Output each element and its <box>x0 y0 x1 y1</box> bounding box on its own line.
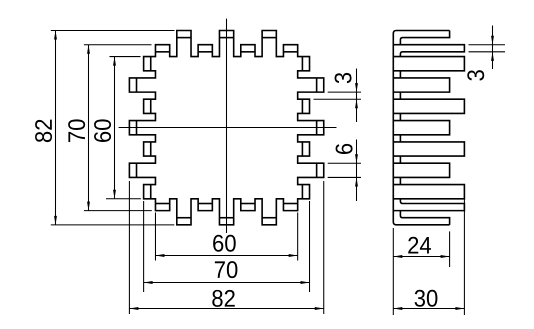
label 30 <box>415 290 425 307</box>
tooth inner line right M <box>301 57 303 71</box>
label 82 (bottom) <box>212 290 222 307</box>
dim3 leader <box>356 69 358 123</box>
ext 60 br <box>297 213 299 261</box>
tooth inner line right M <box>301 142 303 156</box>
label 70 (bottom) <box>215 261 225 278</box>
tooth inner line bottom M <box>241 203 255 205</box>
side fin B (long) <box>393 45 464 57</box>
arrow 30 left <box>393 307 402 310</box>
tooth inner line top T <box>177 37 191 39</box>
side gap root H-I <box>399 177 401 184</box>
tooth inner line left T <box>136 121 138 135</box>
tooth inner line left M <box>150 99 152 113</box>
ext dim6 b <box>328 176 361 178</box>
arrow sdim3 up <box>491 52 494 61</box>
arrow 60 bottom <box>113 190 116 199</box>
side gap root D-E <box>399 92 401 99</box>
label 6 (front) <box>336 144 353 154</box>
arrow dim6 down <box>355 154 358 163</box>
side profile base/left face <box>393 31 449 225</box>
arrow 30 right <box>455 307 464 310</box>
dim line 60 (left) <box>114 57 116 199</box>
arrow 70 left <box>144 281 153 284</box>
ext dim3 a <box>328 91 361 93</box>
arrow 82 bottom <box>54 216 57 225</box>
tooth inner line bottom M <box>198 203 212 205</box>
tooth inner line top M <box>155 51 169 53</box>
arrow 60 left <box>155 254 164 257</box>
label 60 (left) <box>94 132 111 142</box>
tooth inner line bottom T <box>177 217 191 219</box>
arrow 70 top <box>87 45 90 54</box>
arrow 60 right <box>289 254 298 257</box>
label 24 <box>408 237 418 254</box>
dim line 70 (left) <box>88 45 90 211</box>
tooth inner line left T <box>136 78 138 92</box>
ext 70 top <box>84 44 152 46</box>
dim line 30 <box>393 308 464 310</box>
ext 82 bl <box>128 181 130 314</box>
tooth inner line left T <box>136 163 138 177</box>
side fin B' (bottom, long) <box>393 199 464 211</box>
tooth inner line left M <box>150 142 152 156</box>
tooth inner line top M <box>283 51 297 53</box>
dim line 82 (bottom) <box>129 308 323 310</box>
centerline vertical <box>226 19 228 233</box>
ext sdim3 b <box>469 51 506 53</box>
tooth inner line right T <box>316 121 318 135</box>
arrow 60 top <box>113 57 116 66</box>
arrow 70 bottom <box>87 202 90 211</box>
sdim3 leader <box>492 26 494 70</box>
centerline horizontal <box>119 127 337 129</box>
dim line 70 (bottom) <box>144 282 310 284</box>
side fin A (top, short) <box>400 31 449 45</box>
arrow dim3 down <box>355 83 358 92</box>
side gap root C-D <box>399 71 401 78</box>
side gap root F-G <box>399 135 401 142</box>
arrow 70 right <box>301 281 310 284</box>
arrow 82 right <box>315 307 324 310</box>
ext 30 right <box>463 199 465 315</box>
side fin A' (bottom, short) <box>400 211 449 225</box>
dim line 82 (left) <box>55 31 57 225</box>
arrow 82 left <box>129 307 138 310</box>
ext 70 bl <box>143 201 145 292</box>
label 3 (side) <box>467 70 484 80</box>
arrow 24 left <box>393 255 402 258</box>
ext dim3 b <box>314 98 362 100</box>
side fin I (long) <box>393 185 464 199</box>
label 60 (bottom) <box>213 235 223 252</box>
arrow 82 top <box>54 31 57 40</box>
side fin E (long) <box>393 99 464 113</box>
arrow sdim3 down <box>491 36 494 45</box>
ext 60 top <box>110 56 141 58</box>
dim6 leader <box>356 140 358 202</box>
ext 70 br <box>309 201 311 292</box>
side fin H (short) <box>393 163 449 177</box>
tooth inner line right T <box>316 163 318 177</box>
side gap root E-F <box>399 113 401 120</box>
side fin D (short) <box>393 78 449 92</box>
ext 82 br <box>323 181 325 314</box>
tooth inner line right T <box>316 78 318 92</box>
tooth inner line top M <box>241 51 255 53</box>
side gap root G-H <box>399 156 401 163</box>
label 3 (front) <box>335 73 352 83</box>
side fin C (long) <box>393 57 464 71</box>
ext dim6 a <box>328 162 361 164</box>
ext 24 right <box>449 231 451 267</box>
side fin G (long) <box>393 142 464 156</box>
arrow dim3 up <box>355 99 358 108</box>
label 82 (left) <box>35 132 52 142</box>
tooth inner line right M <box>301 185 303 199</box>
tooth inner line right M <box>301 99 303 113</box>
tooth inner line bottom T <box>219 217 233 219</box>
ext side left <box>392 228 394 315</box>
ext 82 bottom <box>51 224 175 226</box>
ext 82 top <box>51 30 175 32</box>
tooth inner line top T <box>219 37 233 39</box>
tooth inner line bottom T <box>262 217 276 219</box>
tooth inner line top M <box>198 51 212 53</box>
side fin F (short) <box>393 121 449 135</box>
tooth inner line left M <box>150 185 152 199</box>
dim line 60 (bottom) <box>155 255 297 257</box>
dim line 24 <box>393 256 449 258</box>
ext 60 bl <box>154 213 156 261</box>
tooth inner line bottom M <box>283 203 297 205</box>
tooth inner line left M <box>150 57 152 71</box>
ext 60 bottom <box>106 198 141 200</box>
ext 70 bottom <box>84 210 152 212</box>
tooth inner line top T <box>262 37 276 39</box>
ext sdim3 a <box>469 44 506 46</box>
heatsink front view outline (castellated square) <box>129 31 323 225</box>
label 70 (left) <box>68 132 85 142</box>
tooth inner line bottom M <box>155 203 169 205</box>
arrow 24 right <box>441 255 450 258</box>
arrow dim6 up <box>355 177 358 186</box>
